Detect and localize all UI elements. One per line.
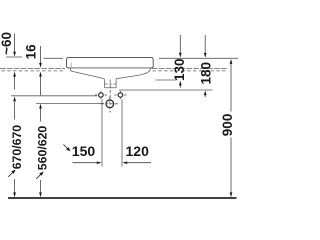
svg-text:670/670: 670/670 xyxy=(10,125,24,170)
svg-text:~60: ~60 xyxy=(0,32,14,55)
svg-text:180: 180 xyxy=(198,62,213,85)
svg-text:150: 150 xyxy=(72,143,96,159)
svg-text:16: 16 xyxy=(23,44,38,60)
svg-text:130: 130 xyxy=(172,58,187,81)
svg-text:900: 900 xyxy=(220,114,235,137)
svg-text:560/620: 560/620 xyxy=(36,126,50,171)
svg-text:120: 120 xyxy=(126,143,150,159)
